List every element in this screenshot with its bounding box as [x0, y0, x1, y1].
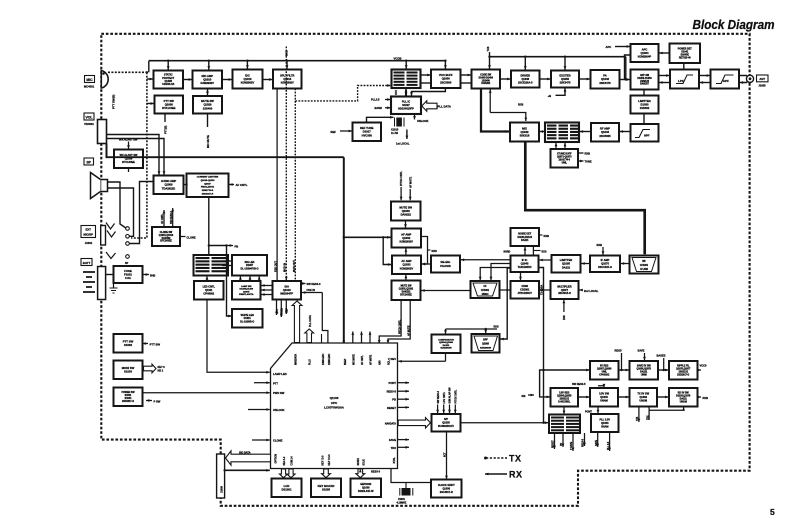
svg-text:RXB: RXB	[703, 396, 709, 400]
svg-text:2SB1132: 2SB1132	[679, 372, 689, 374]
svg-text:SW RES3-3: SW RES3-3	[170, 210, 173, 224]
key board S1005	[311, 479, 341, 498]
svg-text:CPU: CPU	[331, 401, 337, 405]
mic vertical wire (dashed)	[131, 72, 147, 238]
svg-text:PTT(S): PTT(S)	[163, 126, 167, 134]
mic amp Q1010	[193, 71, 223, 89]
s/p top stub 1	[436, 390, 440, 413]
svg-text:HVM125: HVM125	[640, 81, 650, 83]
wire hpf to lpf b	[700, 81, 711, 84]
svg-text:Q1034,Q1096: Q1034,Q1096	[439, 341, 454, 344]
svg-text:BU4094BCFV: BU4094BCFV	[438, 425, 454, 428]
svg-text:CODE SW: CODE SW	[480, 74, 492, 76]
svg-text:FSK OUT: FSK OUT	[274, 261, 277, 272]
svg-text:5: 5	[770, 507, 775, 517]
svg-text:FSK IN: FSK IN	[307, 288, 316, 292]
svg-text:2SC5226A-5: 2SC5226A-5	[518, 81, 533, 84]
MOD node label	[284, 50, 288, 56]
page number	[770, 507, 775, 517]
mix Q1042	[510, 123, 539, 142]
wire xf to mix	[540, 130, 545, 133]
svg-text:PLL DATA: PLL DATA	[309, 315, 312, 327]
RX8 node	[518, 103, 524, 107]
svg-text:APC: APC	[642, 47, 648, 51]
wire hpf to ant a	[739, 76, 749, 78]
svg-text:SAVE 5V SW: SAVE 5V SW	[637, 365, 652, 368]
svg-text:UNAM: UNAM	[601, 425, 609, 428]
svg-text:2SB1132: 2SB1132	[560, 399, 570, 401]
svg-text:VR4001: VR4001	[84, 122, 94, 126]
svg-text:PLL3.5: PLL3.5	[371, 98, 380, 102]
svg-text:Q1034: Q1034	[640, 51, 649, 55]
rail drop to driver	[524, 57, 527, 70]
SAVE pll stub	[595, 432, 599, 447]
svg-text:2nd LOCAL: 2nd LOCAL	[584, 289, 599, 293]
TX legend	[484, 454, 522, 464]
PTT SW node	[143, 342, 161, 346]
svg-text:DTC143EE: DTC143EE	[400, 293, 412, 296]
svg-text:PD: PD	[392, 398, 396, 402]
MOD OUT wire (dashed)	[293, 89, 296, 281]
svg-text:WF: WF	[642, 261, 646, 263]
PB node	[209, 244, 238, 248]
svg-text:UNLOCK: UNLOCK	[417, 119, 429, 123]
svg-text:RX8: RX8	[563, 315, 566, 320]
eeprom Q1038	[351, 479, 382, 498]
volume wire a	[107, 135, 161, 175]
RX legend	[485, 470, 523, 480]
svg-text:Q1016: Q1016	[243, 77, 252, 81]
svg-text:MIX: MIX	[522, 126, 527, 130]
exciter Q1056	[551, 71, 579, 88]
svg-text:SP: SP	[86, 160, 91, 164]
jack contact 4	[106, 252, 129, 259]
option bus arrow	[226, 451, 271, 465]
wire lamp sw to d/a c	[261, 293, 272, 296]
wire pll to vco	[405, 89, 408, 96]
rail drop to vco buff	[444, 61, 447, 69]
PLL3.5 node	[371, 98, 391, 102]
wire af amp2 to af amp1	[405, 248, 408, 255]
svg-text:APC: APC	[606, 45, 612, 49]
svg-text:LIMITTER: LIMITTER	[560, 258, 572, 262]
svg-text:SQL: SQL	[389, 360, 391, 365]
rail drop to vco	[405, 61, 408, 69]
wire vco to vco buff a	[421, 74, 431, 77]
wire code sw to driver	[500, 78, 511, 81]
svg-text:BPF: BPF	[483, 340, 488, 342]
wire ref tune to pll	[367, 116, 394, 123]
svg-text:MUTE SW: MUTE SW	[399, 205, 412, 209]
PLL 3.5 stub	[608, 432, 611, 451]
8V rail wire	[149, 60, 447, 62]
af bus vertical	[343, 157, 345, 238]
P SW node	[146, 399, 161, 403]
svg-text:NJM2902V: NJM2902V	[400, 240, 414, 244]
svg-text:IDC: IDC	[245, 73, 250, 77]
svg-text:Q1095: Q1095	[482, 344, 490, 346]
ANT connector J1005	[746, 75, 768, 88]
pll 3.5v Q1053	[591, 414, 619, 432]
wire to bpf top	[484, 329, 487, 333]
svg-text:PONT: PONT	[389, 381, 397, 385]
NOTCH CNTL stub	[400, 171, 404, 201]
wire cf to mute sw2	[421, 289, 470, 292]
reset ic unit (dense block)	[549, 415, 580, 434]
wire current limitter down	[208, 197, 210, 255]
svg-text:LAMP LED: LAMP LED	[273, 372, 287, 376]
svg-text:CPH6002: CPH6002	[203, 293, 214, 296]
svg-text:MNSDATA: MNSDATA	[295, 354, 298, 365]
svg-text:ANT SW: ANT SW	[640, 74, 650, 77]
svg-text:2SD2617-G: 2SD2617-G	[677, 374, 689, 376]
wire noise det to if ic	[504, 246, 547, 255]
svg-text:Q1031,Q1091: Q1031,Q1091	[399, 289, 414, 291]
cd90 discriminator CD1001	[511, 281, 540, 299]
VCOB node label	[394, 57, 402, 61]
svg-text:DA221: DA221	[521, 239, 529, 242]
wire if ic loop a	[490, 264, 511, 281]
wire xtune to xf a	[555, 143, 558, 149]
P SAVE stub	[570, 433, 574, 451]
noise det D1103	[511, 228, 540, 246]
wire lamp sw to led a	[239, 276, 242, 281]
wire deemphasis to af amp2	[422, 263, 431, 266]
svg-text:NJM2902R: NJM2902R	[440, 348, 451, 350]
wire led cntl up	[206, 276, 209, 281]
svg-text:Q1009: Q1009	[164, 183, 173, 187]
TUNE2 d/a stub	[280, 300, 284, 318]
svg-text:LPG CNTL: LPG CNTL	[444, 391, 446, 403]
svg-text:2SC5005: 2SC5005	[599, 134, 611, 138]
s/p bus arrow	[398, 418, 430, 428]
svg-text:SCLK: SCLK	[364, 459, 366, 466]
RX8 multiplier stub	[563, 300, 567, 320]
svg-text:VCO BUFF: VCO BUFF	[439, 73, 453, 77]
svg-text:M62364FP: M62364FP	[280, 292, 293, 296]
V DEV wire	[398, 353, 445, 363]
svg-text:AF MUTE: AF MUTE	[409, 177, 412, 188]
TX8 rail wire	[488, 56, 626, 58]
svg-text:FMG1,Z10TA: FMG1,Z10TA	[201, 186, 215, 189]
svg-text:SHN ALAP SW: SHN ALAP SW	[449, 387, 452, 404]
svg-text:TRX: TRX	[391, 446, 397, 450]
wire hpf2 to rf amp	[620, 130, 631, 133]
svg-text:XTUNE BUFF: XTUNE BUFF	[557, 154, 572, 156]
FSK IN node	[302, 288, 328, 343]
svg-text:REG5: REG5	[615, 349, 623, 353]
wire limitter2 to if ic	[539, 259, 551, 262]
svg-text:RES3-5: RES3-5	[387, 390, 397, 394]
svg-text:POWER DET: POWER DET	[678, 49, 693, 51]
RXS node afamp	[428, 249, 438, 253]
SW RES3-3 clone stub	[170, 208, 174, 227]
svg-text:Q1043: Q1043	[601, 130, 610, 134]
1st LOCAL node	[396, 130, 410, 146]
wire mute sw to mic amp	[206, 89, 209, 96]
af amp Q1033	[392, 256, 421, 275]
mute sw Q1029	[193, 96, 222, 114]
svg-text:PTT SW: PTT SW	[164, 99, 175, 103]
KEY node arrow	[144, 364, 166, 373]
svg-text:2SC4617-R: 2SC4617-R	[440, 491, 453, 494]
svg-text:CLONE SW: CLONE SW	[160, 232, 173, 234]
svg-text:+B: +B	[548, 94, 552, 98]
BASES node	[657, 354, 666, 371]
svg-text:KEY O 3-0: KEY O 3-0	[329, 454, 331, 466]
RXB node xtune	[578, 152, 590, 156]
svg-text:PITCH CNTL: PITCH CNTL	[398, 319, 401, 334]
svg-text:PLL 3.5: PLL 3.5	[608, 441, 610, 450]
splt filtr Q1018	[273, 70, 302, 89]
svg-text:SW RES3-5: SW RES3-5	[572, 383, 586, 386]
svg-text:BASES: BASES	[657, 354, 666, 358]
svg-text:P SW: P SW	[154, 399, 161, 403]
svg-text:NSRD: NSRD	[504, 251, 511, 254]
svg-text:DTC143EE: DTC143EE	[122, 161, 135, 164]
wire 3.5v reg to sw	[578, 396, 590, 399]
wire lamp sw to led b	[249, 276, 252, 281]
svg-text:UNLOCK: UNLOCK	[273, 408, 285, 412]
mic wire (dashed)	[108, 71, 148, 73]
white led D1011	[232, 309, 263, 328]
svg-text:REF: REF	[286, 308, 289, 313]
svg-text:Q1050: Q1050	[442, 77, 451, 81]
led cntl Q1101	[194, 281, 224, 300]
tx 5v sw Q1062	[630, 388, 658, 407]
volume bus wire	[107, 144, 344, 158]
power sw S1001	[114, 388, 143, 407]
svg-text:S1001: S1001	[125, 395, 132, 397]
PONT2 node	[585, 407, 599, 414]
svg-text:NJM2902V: NJM2902V	[281, 80, 294, 84]
wire ant sw to limitter	[643, 90, 645, 96]
hpf 2	[631, 124, 659, 142]
battery terminal	[98, 267, 106, 300]
svg-text:S-80C35BL: S-80C35BL	[558, 401, 571, 403]
RB node	[522, 394, 535, 398]
wire mic to static protect	[147, 78, 153, 81]
svg-text:DAN202: DAN202	[481, 82, 491, 85]
VCV node	[395, 90, 398, 95]
audio mute unit (dense block)	[194, 255, 229, 276]
wire if ic to cd90	[519, 272, 522, 280]
svg-text:Q1027: Q1027	[204, 183, 211, 185]
svg-text:PITCH CNTL: PITCH CNTL	[400, 171, 403, 186]
wire bus to af amp1	[344, 236, 391, 239]
svg-text:1SS400: 1SS400	[203, 106, 213, 110]
rail drop to mic line	[148, 61, 150, 73]
svg-text:PD: PD	[561, 442, 563, 446]
APC d/a stub	[275, 300, 279, 316]
svg-text:MIC/SP: MIC/SP	[83, 233, 93, 237]
svg-text:PTT SW(S): PTT SW(S)	[112, 95, 116, 109]
svg-text:LAMP SW: LAMP SW	[241, 285, 252, 288]
svg-text:NJM2902V: NJM2902V	[201, 81, 215, 85]
svg-text:Q1015,Q1016: Q1015,Q1016	[159, 235, 174, 237]
svg-text:RXB: RXB	[597, 243, 603, 247]
wire ant to hpf b	[740, 80, 749, 84]
if amp Q1070	[590, 256, 620, 273]
audio amp out wire	[130, 182, 154, 244]
svg-text:RET525-40: RET525-40	[679, 56, 691, 59]
s/p top stub 3	[448, 387, 452, 413]
svg-text:2SB1776-R: 2SB1776-R	[202, 190, 214, 192]
wire mic amp to idc	[222, 78, 232, 81]
svg-text:PTT: PTT	[273, 381, 278, 385]
lcd bus arrow b	[287, 469, 295, 478]
jack contact 1	[106, 223, 129, 231]
if ic Q1045	[511, 256, 539, 273]
svg-text:UNGM: UNGM	[639, 400, 647, 403]
svg-text:47.25M: 47.25M	[640, 268, 648, 271]
svg-text:DAN202: DAN202	[162, 237, 172, 240]
wire driver to exciter	[540, 78, 551, 81]
svg-text:DAN222: DAN222	[401, 213, 412, 217]
BEEP wire to cpu	[342, 237, 345, 344]
IF wire mix to wf	[525, 142, 646, 255]
s/p top stub 4	[454, 389, 458, 413]
svg-text:Q1042: Q1042	[520, 130, 529, 134]
code sw D1405	[472, 70, 501, 89]
svg-text:UDZS5.1B: UDZS5.1B	[162, 83, 174, 86]
svg-text:Q1054,Q1055: Q1054,Q1055	[557, 395, 572, 398]
svg-text:SAVE: SAVE	[595, 439, 598, 446]
REF node	[331, 130, 353, 134]
limitter Q1095	[552, 255, 581, 273]
svg-text:IF IC: IF IC	[522, 258, 528, 262]
svg-text:PB: PB	[235, 244, 239, 248]
svg-text:PTT SW: PTT SW	[150, 342, 161, 346]
MIC MUTE node	[206, 114, 210, 149]
svg-text:TUNE2: TUNE2	[281, 307, 284, 316]
rail drop to static protect	[167, 61, 170, 70]
svg-text:Q1018: Q1018	[283, 77, 291, 81]
svg-text:UNIM: UNIM	[641, 374, 647, 376]
svg-text:TX8: TX8	[486, 46, 490, 51]
svg-text:MOD IN: MOD IN	[284, 263, 287, 272]
wire splt filtr to vco (dashed)	[295, 84, 390, 101]
cpu top stub af cntl	[360, 332, 363, 344]
svg-text:13M9 ENC: 13M9 ENC	[323, 353, 325, 365]
RES3-5 stub	[583, 433, 586, 447]
svg-text:S1004: S1004	[125, 397, 132, 400]
wire code sw to mix top	[489, 90, 527, 122]
svg-text:CF1001: CF1001	[481, 290, 490, 292]
svg-text:2SD2617-R: 2SD2617-R	[202, 194, 214, 196]
cpu right stub trx	[398, 446, 410, 449]
svg-text:5HB: 5HB	[150, 273, 155, 277]
svg-text:D/A: D/A	[285, 285, 290, 289]
lamp sw D1408	[232, 281, 261, 300]
option lower wire	[223, 469, 269, 472]
svg-text:Q1008: Q1008	[165, 102, 174, 106]
svg-text:11.7M: 11.7M	[391, 132, 398, 135]
audio amp Q1009	[154, 176, 184, 195]
svg-text:S1002: S1002	[124, 343, 133, 347]
xtune buff Q1071	[551, 149, 579, 168]
3.5v sw Q1043	[590, 388, 618, 407]
svg-text:S1003: S1003	[124, 370, 133, 374]
s/p to reset wire	[461, 422, 544, 424]
svg-text:NAVDATA: NAVDATA	[385, 422, 396, 425]
wire 3.5v sw to tx5v	[618, 396, 629, 399]
PLL DATA cpu bus arrow	[305, 315, 314, 343]
svg-text:Q1046: Q1046	[601, 77, 610, 81]
APC node label	[606, 45, 631, 49]
mute sw Q1031	[392, 281, 421, 301]
current limitter Q1018	[187, 174, 229, 198]
CLONE node	[180, 235, 196, 239]
EXT jack J1001	[101, 226, 106, 246]
wx alart stub	[128, 168, 130, 172]
cpu right stub save	[398, 438, 410, 441]
wire static to mic amp	[183, 78, 192, 81]
af amp Q1032	[392, 229, 422, 248]
svg-text:Q1095: Q1095	[562, 262, 571, 266]
svg-text:J1001: J1001	[85, 241, 93, 245]
microphone symbol	[101, 71, 108, 89]
svg-text:MOD OUT: MOD OUT	[293, 260, 296, 272]
svg-text:2SK3475: 2SK3475	[560, 80, 571, 84]
svg-text:EXCITER: EXCITER	[559, 73, 570, 77]
svg-text:PHASIS: PHASIS	[440, 264, 451, 268]
bpf top wire	[446, 326, 499, 331]
svg-text:NJM2902R: NJM2902R	[480, 348, 491, 350]
wire if ic af out to bpf	[500, 268, 510, 340]
svg-text:PA: PA	[603, 74, 607, 78]
wire clone stub to cpu	[252, 439, 270, 442]
save 5v sw Q1056	[630, 361, 659, 380]
keyboard bus arrow	[322, 469, 331, 478]
cpu right stub reset	[398, 406, 410, 409]
r/g led D1407	[232, 255, 267, 276]
MIC connector label	[84, 76, 95, 89]
svg-text:AF AMP: AF AMP	[401, 232, 411, 236]
svg-text:UNGM: UNGM	[680, 401, 687, 403]
svg-text:BAND: BAND	[375, 106, 383, 110]
svg-text:SAVE: SAVE	[638, 349, 645, 353]
svg-text:DS1001: DS1001	[281, 488, 292, 492]
svg-text:RXB: RXB	[544, 234, 550, 238]
wire if ic to deemphasis	[461, 258, 511, 261]
wire if amp to limitter2	[581, 262, 590, 265]
svg-text:2SD2617-R: 2SD2617-R	[122, 401, 134, 403]
svg-text:TA31136FN: TA31136FN	[518, 265, 532, 269]
pa Q1046	[591, 70, 620, 89]
svg-text:RESET: RESET	[553, 440, 555, 448]
svg-text:RXS: RXS	[432, 249, 438, 253]
svg-text:TX5: TX5	[637, 416, 639, 421]
ptt sw S1002	[114, 334, 143, 353]
svg-text:MIC: MIC	[86, 78, 93, 82]
ref tune D1017	[353, 123, 382, 142]
wire if ic loop b	[479, 268, 511, 281]
wire tx5v to rx5v bottom	[649, 407, 685, 410]
ripple fil Q1075	[669, 361, 698, 380]
svg-text:APC: APC	[276, 309, 279, 314]
svg-text:Q1018-Q1019: Q1018-Q1019	[201, 180, 216, 182]
svg-text:COMPARATOR: COMPARATOR	[438, 338, 454, 341]
svg-text:VOL: VOL	[86, 115, 93, 119]
lpf	[670, 70, 699, 89]
svg-text:SP: SP	[125, 262, 129, 265]
svg-text:HD154015FP: HD154015FP	[398, 107, 414, 111]
svg-text:SW RES3-3: SW RES3-3	[438, 390, 440, 403]
jack contact 3	[126, 242, 130, 246]
svg-text:Q1010: Q1010	[203, 77, 212, 81]
RXB noise det node	[539, 234, 549, 238]
